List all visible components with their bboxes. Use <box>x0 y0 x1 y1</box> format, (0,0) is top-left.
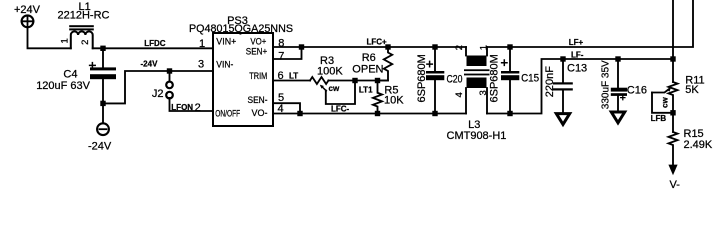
svg-text:LFC-: LFC- <box>331 105 350 114</box>
svg-text:100K: 100K <box>317 66 343 78</box>
svg-text:6: 6 <box>278 70 284 82</box>
svg-text:7: 7 <box>278 50 284 62</box>
svg-text:4: 4 <box>454 92 465 97</box>
svg-text:2: 2 <box>454 45 465 50</box>
svg-text:2212H-RC: 2212H-RC <box>58 10 110 22</box>
svg-text:LF-: LF- <box>571 50 584 59</box>
svg-text:2.49K: 2.49K <box>684 139 713 151</box>
svg-text:C16: C16 <box>627 85 647 97</box>
svg-text:C20: C20 <box>447 73 463 85</box>
svg-text:5K: 5K <box>685 84 699 96</box>
svg-text:cw: cw <box>661 97 670 108</box>
svg-text:10K: 10K <box>384 95 404 107</box>
svg-text:VIN+: VIN+ <box>216 37 236 48</box>
svg-text:4: 4 <box>278 103 284 115</box>
svg-text:SEN+: SEN+ <box>246 46 268 57</box>
svg-text:SEN-: SEN- <box>248 95 268 106</box>
svg-text:VIN-: VIN- <box>216 59 233 70</box>
svg-text:6SP680M: 6SP680M <box>416 54 428 102</box>
svg-text:LT1: LT1 <box>359 86 373 95</box>
svg-text:cw: cw <box>329 84 340 93</box>
svg-text:LT: LT <box>289 71 298 80</box>
svg-text:1: 1 <box>59 38 70 43</box>
svg-text:J2: J2 <box>152 88 164 100</box>
svg-text:8: 8 <box>278 38 284 50</box>
svg-text:2: 2 <box>195 102 201 114</box>
svg-text:ON/OFF: ON/OFF <box>215 108 240 119</box>
svg-text:LFB: LFB <box>651 114 667 123</box>
svg-text:220nF: 220nF <box>544 66 556 97</box>
svg-text:C4: C4 <box>63 68 77 80</box>
svg-text:2: 2 <box>80 40 91 45</box>
svg-text:-24V: -24V <box>141 60 159 69</box>
svg-text:R6: R6 <box>362 52 376 64</box>
svg-text:3: 3 <box>478 90 489 95</box>
svg-text:PQ48015QGA25NNS: PQ48015QGA25NNS <box>189 23 293 35</box>
svg-text:120uF 63V: 120uF 63V <box>36 80 90 92</box>
svg-text:C13: C13 <box>567 63 587 75</box>
svg-text:6SP680M: 6SP680M <box>489 54 501 102</box>
svg-text:330uF 35V: 330uF 35V <box>601 60 612 109</box>
svg-text:-24V: -24V <box>88 140 112 152</box>
svg-text:LFC+: LFC+ <box>367 37 388 46</box>
svg-text:5: 5 <box>278 92 284 104</box>
svg-text:LFON: LFON <box>171 103 193 112</box>
svg-text:+24V: +24V <box>14 4 41 16</box>
svg-text:LFDC: LFDC <box>144 39 166 48</box>
svg-text:CMT908-H1: CMT908-H1 <box>447 130 507 142</box>
svg-text:3: 3 <box>198 58 204 70</box>
svg-text:C15: C15 <box>521 72 539 84</box>
svg-text:TRIM: TRIM <box>249 71 267 82</box>
svg-text:OPEN: OPEN <box>352 64 383 76</box>
svg-text:1: 1 <box>199 38 205 50</box>
svg-text:VO-: VO- <box>252 108 268 119</box>
svg-text:LF+: LF+ <box>569 38 584 47</box>
svg-text:V-: V- <box>670 179 681 191</box>
svg-text:1: 1 <box>478 45 489 50</box>
